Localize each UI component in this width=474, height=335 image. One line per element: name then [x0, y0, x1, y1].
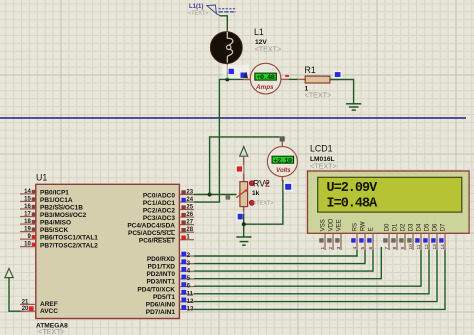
svg-text:20: 20 — [22, 306, 29, 312]
svg-text:16: 16 — [24, 204, 31, 210]
svg-text:VDD: VDD — [328, 218, 334, 231]
red handle on RV2 top wire — [235, 165, 243, 173]
svg-text:D0: D0 — [384, 223, 390, 231]
svg-text:U1: U1 — [36, 173, 47, 183]
svg-text:U=2.09V: U=2.09V — [327, 181, 379, 196]
svg-text:27: 27 — [186, 220, 193, 226]
pin 2 PD0/RXD — [147, 252, 194, 263]
svg-text:14: 14 — [24, 189, 31, 195]
svg-text:PD0/RXD: PD0/RXD — [147, 256, 175, 263]
svg-text:E: E — [368, 227, 374, 231]
voltage probe L1(1) — [188, 4, 236, 17]
svg-text:26: 26 — [186, 212, 193, 218]
wire: lamp bottom to junction and branches — [227, 72, 250, 79]
svg-text:9: 9 — [400, 247, 406, 250]
pin 11 PD5/T1 — [153, 290, 194, 301]
svg-text:PD4/T0/XCK: PD4/T0/XCK — [137, 286, 175, 293]
svg-text:25: 25 — [186, 205, 193, 211]
pin 27 PC4/ADC4/SDA — [127, 220, 194, 230]
svg-text:+2.10: +2.10 — [274, 157, 292, 165]
pin 21 AREF — [20, 299, 58, 308]
svg-text:PB7/TOSC2/XTAL2: PB7/TOSC2/XTAL2 — [40, 242, 98, 249]
LCD pin 8 D1 — [391, 223, 398, 250]
svg-text:PB3/MOSI/OC2: PB3/MOSI/OC2 — [40, 212, 87, 219]
LCD pin 13 D6 — [431, 223, 438, 250]
wire: probe to lamp top — [220, 16, 227, 31]
svg-text:Amps: Amps — [255, 84, 274, 91]
svg-text:12: 12 — [424, 244, 430, 250]
svg-text:1: 1 — [320, 247, 326, 250]
svg-text:PC0/ADC0: PC0/ADC0 — [143, 193, 176, 200]
resistor R1 — [305, 65, 338, 100]
blue handle right of R1 — [333, 71, 342, 79]
svg-text:10: 10 — [24, 242, 31, 248]
junction on ADC0 wire — [208, 193, 212, 197]
pin 15 PB1/OC1A — [20, 196, 73, 204]
pin 18 PB4/MISO — [20, 219, 71, 227]
svg-text:<TEXT>: <TEXT> — [38, 327, 65, 335]
junction pot bottom — [242, 222, 246, 226]
pin 10 PB7/TOSC2/XTAL2 — [20, 242, 98, 250]
LCD pin 6 E — [367, 227, 374, 250]
svg-text:12: 12 — [187, 299, 194, 305]
pin 28 PC5/ADC5/SCL — [128, 227, 194, 237]
svg-text:L1(1): L1(1) — [189, 4, 203, 10]
svg-text:PB2/SS/OC1B: PB2/SS/OC1B — [40, 205, 83, 212]
ground (R1 net) — [346, 104, 361, 110]
pin 23 PC0/ADC0 — [143, 190, 194, 200]
svg-text:11: 11 — [187, 291, 194, 297]
svg-text:D3: D3 — [408, 223, 414, 231]
svg-text:VSS: VSS — [320, 219, 326, 231]
wire: U1 PD4 to LCD — [194, 250, 421, 286]
pin 20 AVCC — [20, 306, 58, 315]
blue handle with cursor — [241, 73, 247, 78]
svg-text:3: 3 — [336, 247, 342, 250]
gray square near wiper wire — [226, 195, 231, 199]
LCD pin 1 VSS — [319, 219, 326, 250]
svg-text:LCD1: LCD1 — [310, 144, 333, 154]
pin 9 PB6/TOSC1/XTAL1 — [20, 234, 98, 242]
svg-text:PB0/ICP1: PB0/ICP1 — [40, 190, 69, 197]
wire: U1 PD2 to LCD — [194, 250, 373, 271]
svg-text:PC3/ADC3: PC3/ADC3 — [143, 215, 176, 222]
minus mark of voltmeter — [265, 182, 269, 184]
LCD pin 2 VDD — [327, 218, 334, 250]
svg-text:PD2/INT0: PD2/INT0 — [146, 271, 175, 278]
svg-text:RW: RW — [360, 221, 366, 231]
svg-text:7: 7 — [384, 247, 390, 250]
LCD pin 3 VEE — [335, 219, 342, 250]
svg-text:PD7/AIN1: PD7/AIN1 — [146, 309, 176, 316]
wire: U1 PD7 to LCD — [194, 250, 445, 309]
selection halo near lamp junction — [223, 65, 250, 79]
svg-text:13: 13 — [432, 244, 438, 250]
svg-text:D7: D7 — [440, 223, 446, 231]
svg-text:8: 8 — [392, 247, 398, 250]
voltmeter Volts — [267, 136, 297, 181]
pin 12 PD6/AIN0 — [146, 297, 194, 308]
ground (RV2 net) — [236, 237, 251, 245]
pin 6 PD4/T0/XCK — [137, 282, 194, 293]
svg-text:15: 15 — [24, 196, 31, 202]
wire: U1 PD6 to LCD — [194, 250, 437, 302]
potentiometer RV2 1k — [236, 175, 273, 214]
svg-text:17: 17 — [24, 212, 31, 218]
svg-text:PB5/SCK: PB5/SCK — [40, 227, 68, 234]
wire: probe to RV2 top pin stub — [243, 156, 245, 182]
minus mark of ammeter — [285, 75, 289, 77]
voltage probe at RV2 top — [240, 147, 248, 157]
pin 17 PB3/MOSI/OC2 — [20, 212, 87, 220]
svg-text:D4: D4 — [416, 223, 422, 231]
svg-text:PB6/TOSC1/XTAL1: PB6/TOSC1/XTAL1 — [40, 235, 98, 242]
svg-text:D1: D1 — [392, 223, 398, 231]
svg-text:PD6/AIN0: PD6/AIN0 — [146, 302, 176, 309]
svg-text:PB4/MISO: PB4/MISO — [40, 220, 71, 227]
pin 13 PD7/AIN1 — [146, 305, 194, 316]
wire: probe to AVCC pin — [9, 278, 24, 312]
svg-text:19: 19 — [24, 227, 31, 233]
LCD pin 7 D0 — [383, 223, 390, 250]
wire: PC0/ADC0 to pot wiper — [194, 194, 237, 196]
LCD pin 12 D5 — [423, 223, 430, 250]
wire: RV2 bottom to ground — [243, 214, 245, 238]
svg-text:D5: D5 — [424, 223, 430, 231]
junction at lamp node — [225, 77, 229, 81]
wire: junction up to voltmeter — [210, 137, 280, 195]
LCD pin 4 RS — [351, 223, 358, 250]
svg-text:PC4/ADC4/SDA: PC4/ADC4/SDA — [127, 223, 175, 230]
pin 3 PD1/TXD — [148, 259, 194, 270]
pin 1 PC6/RESET — [139, 235, 194, 245]
pin 4 PD2/INT0 — [146, 267, 194, 278]
svg-text:<TEXT>: <TEXT> — [305, 91, 332, 100]
svg-text:PC2/ADC2: PC2/ADC2 — [143, 208, 176, 215]
svg-text:PC5/ADC5/SCL: PC5/ADC5/SCL — [128, 230, 175, 237]
pin 24 PC1/ADC1 — [143, 197, 194, 207]
svg-text:18: 18 — [24, 219, 31, 225]
lamp L1 12V — [210, 27, 281, 73]
LCD pin 9 D2 — [399, 223, 406, 250]
wire: U1 PD0 to LCD — [194, 250, 357, 256]
svg-text:5: 5 — [360, 247, 366, 250]
svg-text:6: 6 — [368, 247, 374, 250]
wire: U1 PD3 to LCD — [194, 247, 381, 279]
svg-text:VEE: VEE — [336, 219, 342, 231]
svg-text:PD5/T1: PD5/T1 — [153, 294, 175, 301]
pin 26 PC3/ADC3 — [143, 212, 194, 222]
svg-text:<TEXT>: <TEXT> — [255, 45, 282, 54]
LCD pin 10 D3 — [407, 223, 414, 250]
svg-text:D6: D6 — [432, 223, 438, 231]
svg-text:14: 14 — [440, 244, 446, 250]
svg-text:<TEXT>: <TEXT> — [188, 11, 208, 17]
blue handle below RV2 — [236, 212, 244, 221]
pin 25 PC2/ADC2 — [143, 205, 194, 215]
svg-text:PC1/ADC1: PC1/ADC1 — [143, 200, 176, 207]
LCD display LCD1 LM016L — [308, 144, 470, 234]
blue handle near lamp junction — [229, 69, 234, 74]
pin 14 PB0/ICP1 — [20, 189, 69, 197]
pin 5 PD3/INT1 — [146, 275, 194, 286]
blue handle near voltmeter minus — [283, 182, 293, 191]
wire: U1 PD5 to LCD — [194, 250, 429, 294]
svg-text:<TEXT>: <TEXT> — [253, 201, 273, 207]
svg-text:2: 2 — [328, 247, 334, 250]
svg-text:D2: D2 — [400, 223, 406, 231]
svg-text:23: 23 — [186, 190, 193, 196]
voltage probe at AVCC — [5, 268, 13, 277]
svg-text:13: 13 — [187, 307, 194, 313]
svg-text:RS: RS — [352, 223, 358, 231]
svg-text:24: 24 — [186, 197, 193, 203]
wire: R1 to ground — [330, 80, 354, 104]
svg-text:Volts: Volts — [276, 168, 291, 174]
svg-text:10: 10 — [408, 244, 414, 250]
svg-text:I=0.48A: I=0.48A — [327, 196, 379, 211]
ammeter Amps — [244, 63, 290, 94]
svg-text:<TEXT>: <TEXT> — [310, 162, 337, 171]
LCD pin 5 RW — [359, 221, 366, 250]
wire: U1 PD1 to LCD — [194, 250, 365, 264]
svg-text:28: 28 — [186, 227, 193, 233]
pin 16 PB2/SS/OC1B — [20, 204, 83, 212]
LCD pin 11 D4 — [415, 223, 422, 250]
svg-text:+0.48: +0.48 — [256, 74, 274, 82]
svg-text:4: 4 — [352, 247, 358, 250]
svg-text:PD3/INT1: PD3/INT1 — [146, 279, 175, 286]
svg-text:1k: 1k — [252, 190, 260, 197]
svg-text:11: 11 — [416, 244, 422, 249]
svg-text:RV2: RV2 — [253, 179, 270, 189]
svg-text:PC6/RESET: PC6/RESET — [139, 238, 175, 245]
svg-text:PD1/TXD: PD1/TXD — [148, 263, 176, 270]
LCD pin 14 D7 — [439, 223, 446, 250]
svg-text:R1: R1 — [305, 65, 316, 75]
svg-text:L1: L1 — [254, 27, 264, 37]
microcontroller U1 ATMEGA8 — [36, 173, 180, 335]
wire: voltmeter bottom to pot-bottom junction — [244, 180, 283, 224]
svg-text:PB1/OC1A: PB1/OC1A — [40, 197, 73, 204]
wire: ammeter to R1 — [289, 78, 298, 80]
wire: long blue net across page — [0, 117, 466, 119]
svg-text:AVCC: AVCC — [40, 308, 58, 315]
pin 19 PB5/SCK — [20, 227, 68, 235]
svg-text:21: 21 — [22, 299, 29, 305]
